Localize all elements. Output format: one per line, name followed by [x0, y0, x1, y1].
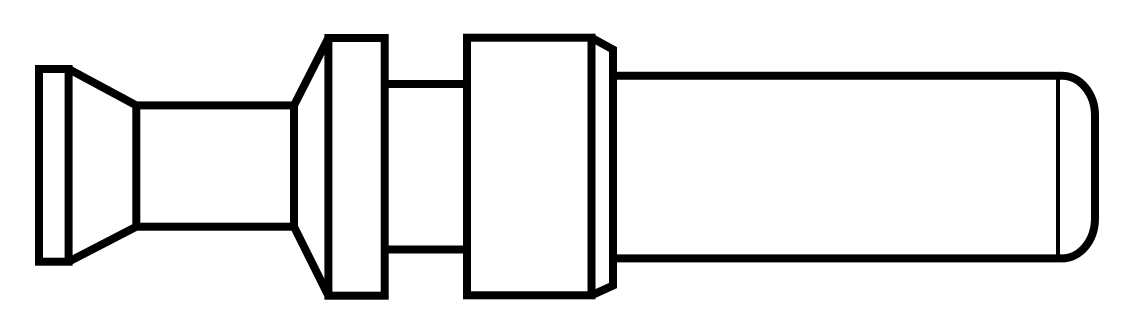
- cone taper lower edge: [69, 227, 137, 262]
- groove upper line: [385, 80, 467, 88]
- cone taper upper edge: [69, 69, 137, 105]
- hex body block: [467, 38, 592, 296]
- flare lower edge: [294, 227, 328, 296]
- tip tangency line: [1056, 76, 1060, 259]
- groove lower line: [385, 246, 467, 254]
- collar washer: [328, 38, 384, 296]
- flare upper edge: [294, 38, 328, 105]
- shank cylinder with rounded tip: [613, 76, 1095, 259]
- left flange plate: [39, 69, 69, 262]
- chamfered end face: [592, 38, 614, 296]
- neck section: [136, 105, 294, 226]
